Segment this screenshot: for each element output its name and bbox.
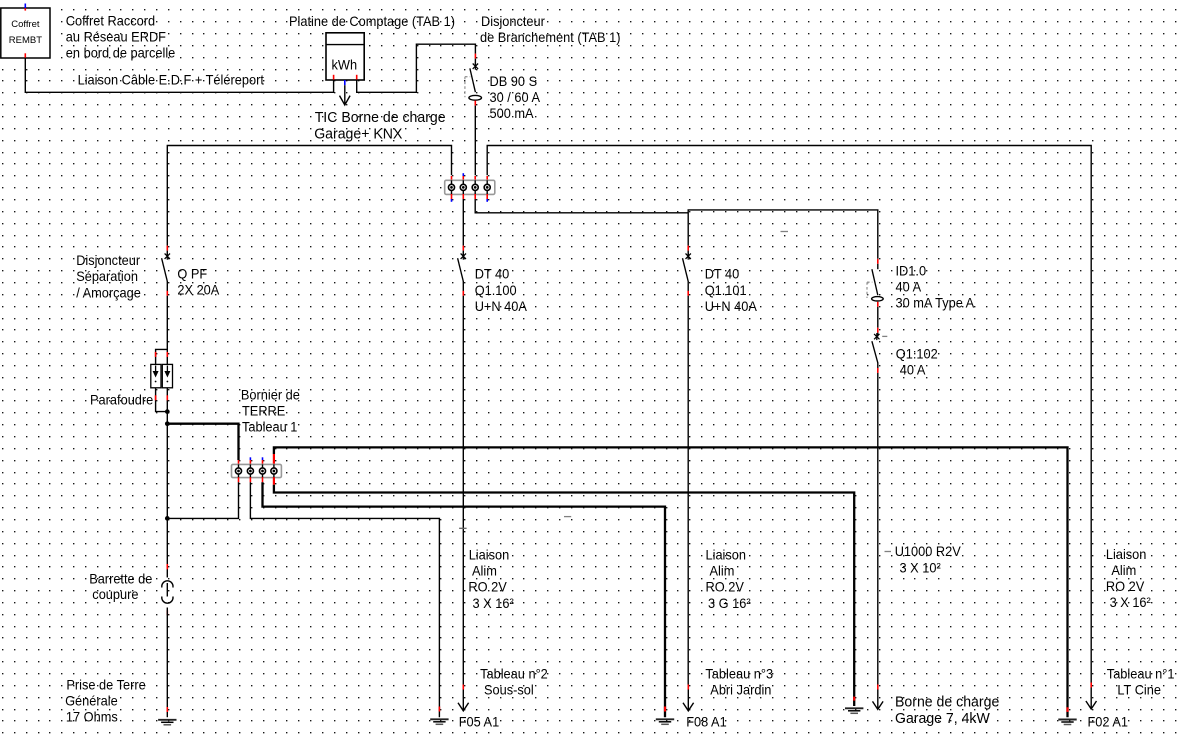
label platine de comptage bbox=[289, 14, 455, 29]
label U1000 R2V bbox=[895, 544, 961, 576]
wire bornier terre T2 to F05 ground bbox=[250, 482, 439, 717]
wire barrette to prise de terre bbox=[166, 608, 168, 718]
ground borne de charge bbox=[845, 697, 863, 714]
svg-text:Parafoudre: Parafoudre bbox=[90, 393, 153, 408]
junction node parafoudre bbox=[165, 409, 170, 414]
svg-text:Disjoncteur: Disjoncteur bbox=[481, 14, 545, 29]
svg-text:Barrette de: Barrette de bbox=[89, 571, 152, 586]
svg-text:LT Cine: LT Cine bbox=[1117, 683, 1161, 698]
label F05 A1 bbox=[459, 715, 500, 730]
ground prise de terre bbox=[158, 707, 176, 725]
cable mark branch 1 bbox=[459, 527, 467, 529]
label borne de charge garage bbox=[895, 694, 999, 727]
label tableau n°2 sous-sol bbox=[480, 667, 548, 698]
svg-text:30 / 60 A: 30 / 60 A bbox=[490, 90, 541, 105]
junction node terre link bbox=[165, 421, 170, 426]
svg-text:Garage 7, 4kW: Garage 7, 4kW bbox=[895, 710, 991, 727]
junction node bornier terre return bbox=[165, 516, 170, 521]
svg-text:ID1.0: ID1.0 bbox=[896, 264, 927, 279]
breaker Q1.100 bbox=[458, 246, 466, 296]
svg-text:Alim: Alim bbox=[710, 564, 735, 579]
ground F08 bbox=[656, 707, 674, 725]
svg-text:Borne de charge: Borne de charge bbox=[895, 694, 999, 711]
parafoudre (surge arrester) bbox=[151, 364, 173, 387]
label prise de terre generale bbox=[65, 677, 146, 724]
wire parafoudre left leg to junction bbox=[156, 388, 166, 412]
cable mark at Q1.102 bbox=[882, 335, 887, 337]
svg-text:TERRE: TERRE bbox=[242, 404, 285, 419]
svg-text:RO 2V: RO 2V bbox=[468, 580, 506, 595]
cable mark floating near branch 1 bbox=[564, 516, 571, 518]
svg-text:RO 2V: RO 2V bbox=[1106, 579, 1144, 594]
svg-text:Q1:102: Q1:102 bbox=[896, 347, 938, 362]
label liaison cable EDF bbox=[78, 72, 265, 87]
svg-text:Sous-sol: Sous-sol bbox=[484, 683, 534, 698]
wire main earth conductor bbox=[166, 388, 168, 578]
svg-text:Q PF: Q PF bbox=[177, 266, 207, 281]
label Q PF 2X 20A bbox=[177, 266, 220, 297]
svg-text:Liaison Câble E.D.F + Télérepo: Liaison Câble E.D.F + Téléreport bbox=[78, 72, 265, 87]
label bornier de terre bbox=[241, 387, 300, 434]
label liaison alim RO 2V branch 2 bbox=[706, 548, 752, 611]
svg-text:Liaison: Liaison bbox=[469, 548, 510, 563]
svg-text:40 A: 40 A bbox=[896, 280, 922, 295]
svg-text:Séparation: Séparation bbox=[76, 269, 138, 284]
svg-text:F08 A1: F08 A1 bbox=[686, 715, 727, 730]
svg-text:Coffret: Coffret bbox=[11, 19, 40, 30]
svg-text:en bord de parcelle: en bord de parcelle bbox=[66, 46, 176, 61]
label Q1:102 40 A bbox=[896, 347, 938, 378]
TIC output arrow bbox=[340, 85, 351, 105]
svg-text:3 G 16²: 3 G 16² bbox=[708, 596, 751, 611]
label tableau n°3 abri jardin bbox=[705, 667, 773, 698]
kWh right terminal tick bbox=[356, 75, 358, 80]
svg-text:Tableau n°2: Tableau n°2 bbox=[480, 667, 548, 682]
barrette de coupure bbox=[162, 564, 173, 615]
svg-text:Tableau n°3: Tableau n°3 bbox=[705, 667, 773, 682]
svg-text:30 mA Type A: 30 mA Type A bbox=[896, 296, 976, 311]
arrow feed tableau n°2 bbox=[458, 685, 469, 711]
kWh middle terminal tick (TIC) bbox=[344, 80, 346, 85]
coffret bottom terminal tick bbox=[24, 53, 26, 58]
svg-text:Alim: Alim bbox=[472, 564, 497, 579]
wire main bus right (to tableau n°1 branch) bbox=[487, 146, 1091, 684]
svg-text:Coffret Raccord: Coffret Raccord bbox=[66, 13, 155, 28]
RCD ID1.0 bbox=[867, 259, 883, 307]
svg-text:Disjoncteur: Disjoncteur bbox=[76, 253, 140, 268]
label liaison alim RO 2V branch 1 bbox=[468, 548, 514, 611]
parafoudre bottom terminal ticks bbox=[156, 395, 168, 400]
label F02 A1 bbox=[1088, 715, 1129, 730]
coffret top terminal tick bbox=[24, 4, 26, 11]
ground F05 bbox=[430, 707, 448, 725]
arrow feed borne de charge bbox=[873, 685, 884, 710]
svg-text:au Réseau ERDF: au Réseau ERDF bbox=[66, 29, 166, 44]
label DT 40 Q1.100 bbox=[475, 267, 528, 314]
breaker Q1.102 bbox=[872, 328, 880, 373]
breaker Q PF bbox=[162, 246, 170, 296]
terminal block TAB1 ticks above bbox=[452, 173, 488, 181]
terminal block TAB1 ticks below bbox=[452, 194, 488, 202]
wire ID1.0 to Q1.102 bbox=[877, 307, 879, 328]
label F08 A1 bbox=[686, 715, 727, 730]
svg-text:de Branchement (TAB 1): de Branchement (TAB 1) bbox=[480, 30, 621, 45]
label disjoncteur separation amorcage bbox=[76, 253, 141, 300]
svg-text:U+N 40A: U+N 40A bbox=[705, 299, 758, 314]
svg-text:U1000 R2V: U1000 R2V bbox=[895, 544, 961, 559]
bornier de terre ticks below bbox=[239, 477, 274, 485]
svg-text:Prise de Terre: Prise de Terre bbox=[66, 677, 145, 692]
bornier de terre ticks above bbox=[239, 454, 274, 465]
svg-text:U+N 40A: U+N 40A bbox=[475, 299, 528, 314]
wire DB to terminal block bbox=[474, 106, 476, 176]
parafoudre top terminal ticks bbox=[156, 352, 168, 357]
svg-text:2X 20A: 2X 20A bbox=[177, 282, 220, 297]
svg-text:Liaison: Liaison bbox=[706, 548, 747, 563]
svg-text:40 A: 40 A bbox=[900, 363, 926, 378]
svg-text:Abri Jardin: Abri Jardin bbox=[710, 683, 771, 698]
label coffret raccord bbox=[66, 13, 176, 60]
wire bornier terre T3 to F08 ground (thick) bbox=[263, 482, 666, 717]
svg-text:F02 A1: F02 A1 bbox=[1088, 715, 1129, 730]
wire terre link to bornier de terre bbox=[167, 424, 238, 460]
breaker Q1.101 bbox=[683, 246, 691, 296]
svg-text:Tableau n°1: Tableau n°1 bbox=[1107, 667, 1175, 682]
svg-text:TIC Borne de charge: TIC Borne de charge bbox=[315, 109, 446, 126]
wire Q PF down to parafoudre bbox=[156, 296, 168, 365]
wire kWh to disjoncteur de branchement bbox=[357, 44, 476, 92]
svg-text:kWh: kWh bbox=[332, 58, 358, 73]
terminal block TAB1 bbox=[445, 180, 495, 194]
label TIC borne de charge bbox=[314, 109, 445, 142]
wire branch 2 riser and link to ID1.0 bbox=[688, 210, 878, 259]
svg-text:17 Ohms: 17 Ohms bbox=[66, 710, 118, 725]
label DT 40 Q1.101 bbox=[705, 267, 758, 314]
coffret REMBT box bbox=[1, 8, 50, 58]
kWh meter U1 bbox=[326, 33, 364, 80]
cable mark before U1000 bbox=[885, 551, 892, 553]
wire Q1.100 down to tableau n°2 bbox=[462, 296, 464, 685]
label tableau n°1 LT Cine bbox=[1107, 667, 1175, 698]
svg-text:RO 2V: RO 2V bbox=[706, 580, 744, 595]
label DB 90 S values bbox=[490, 74, 541, 121]
wire Q1.101 down to tableau n°3 bbox=[687, 296, 689, 685]
label ID1.0 values bbox=[896, 264, 976, 311]
svg-text:500 mA: 500 mA bbox=[490, 106, 535, 121]
kWh left terminal tick bbox=[333, 75, 335, 80]
wire bornier terre T4 up to F02 ground (thick) bbox=[274, 447, 1068, 717]
svg-text:Tableau 1: Tableau 1 bbox=[242, 420, 297, 435]
svg-text:3 X 16²: 3 X 16² bbox=[473, 596, 515, 611]
ground F02 bbox=[1058, 707, 1076, 724]
wire main bus left (to Q PF branch) bbox=[167, 146, 451, 246]
svg-text:DT 40: DT 40 bbox=[475, 267, 510, 282]
svg-text:Bornier de: Bornier de bbox=[241, 387, 300, 402]
svg-text:Platine de Comptage (TAB 1): Platine de Comptage (TAB 1) bbox=[289, 14, 455, 29]
svg-text:coupure: coupure bbox=[92, 587, 138, 602]
svg-text:Q1.101: Q1.101 bbox=[705, 283, 747, 298]
wire Q1.102 down to borne de charge bbox=[877, 373, 879, 685]
wire TAB1 T2 down to Q1.100 bbox=[462, 199, 464, 246]
svg-text:Garage+ KNX: Garage+ KNX bbox=[314, 125, 402, 142]
svg-text:Q1.100: Q1.100 bbox=[475, 283, 517, 298]
arrow feed tableau n°3 bbox=[683, 685, 694, 711]
svg-text:Alim: Alim bbox=[1111, 563, 1136, 578]
svg-text:DT 40: DT 40 bbox=[705, 267, 740, 282]
wire coffret to kWh meter bbox=[25, 58, 333, 93]
svg-text:3 X 16²: 3 X 16² bbox=[1110, 595, 1152, 610]
arrow feed tableau n°1 bbox=[1086, 683, 1097, 710]
svg-text:F05 A1: F05 A1 bbox=[459, 715, 500, 730]
svg-text:3 X 10²: 3 X 10² bbox=[900, 561, 942, 576]
label liaison alim RO 2V branch 4 bbox=[1106, 547, 1151, 610]
wire bornier terre T4 down to borne de charge ground (thick) bbox=[274, 485, 854, 706]
svg-text:/ Amorçage: / Amorçage bbox=[76, 285, 141, 300]
wire TAB1 T3 to branch 2 riser bbox=[475, 199, 688, 213]
svg-text:REMBT: REMBT bbox=[9, 35, 42, 46]
label barrette de coupure bbox=[89, 571, 152, 602]
label disjoncteur de branchement bbox=[480, 14, 621, 45]
wire bornier terre T1 return to earth conductor bbox=[169, 482, 239, 518]
svg-text:Générale: Générale bbox=[65, 694, 118, 709]
svg-text:Liaison: Liaison bbox=[1106, 547, 1147, 562]
bornier de terre bbox=[232, 464, 282, 477]
label parafoudre bbox=[90, 393, 153, 408]
disjoncteur de branchement DB 90 S bbox=[465, 54, 482, 106]
cable mark floating near branch 2 bbox=[781, 231, 789, 233]
svg-text:DB 90 S: DB 90 S bbox=[490, 74, 538, 89]
